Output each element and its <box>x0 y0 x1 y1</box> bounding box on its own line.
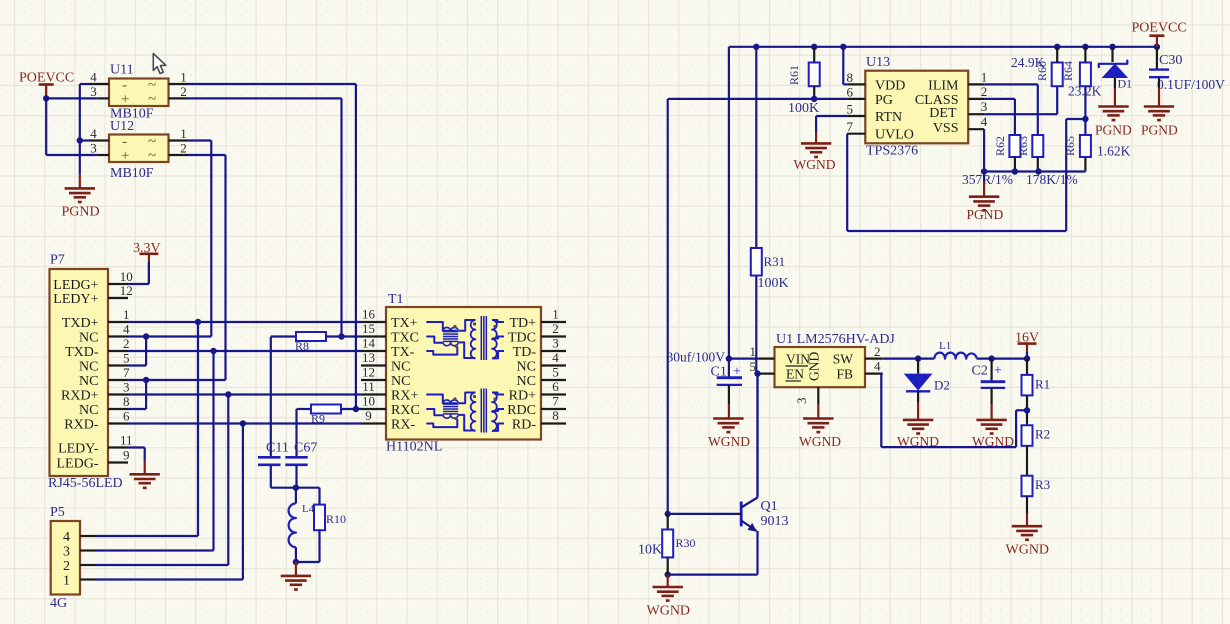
svg-text:5: 5 <box>123 351 130 366</box>
svg-text:6: 6 <box>552 379 559 394</box>
svg-text:EN: EN <box>786 367 804 382</box>
svg-text:RXD+: RXD+ <box>61 389 99 404</box>
svg-text:R61: R61 <box>787 65 801 85</box>
svg-text:2: 2 <box>180 141 187 156</box>
svg-text:1: 1 <box>180 126 187 141</box>
svg-text:DET: DET <box>929 106 957 121</box>
svg-text:2: 2 <box>63 559 70 574</box>
svg-text:C67: C67 <box>294 441 317 456</box>
svg-text:R65: R65 <box>1063 136 1077 156</box>
svg-text:RDC: RDC <box>507 403 536 418</box>
svg-text:16: 16 <box>362 307 376 322</box>
svg-text:6: 6 <box>123 409 130 424</box>
svg-text:9: 9 <box>365 408 372 423</box>
svg-text:3: 3 <box>90 84 97 99</box>
svg-text:3: 3 <box>794 398 809 405</box>
svg-text:5: 5 <box>552 365 559 380</box>
svg-text:P5: P5 <box>50 505 65 520</box>
svg-text:+: + <box>994 364 1002 379</box>
svg-text:WGND: WGND <box>794 157 836 172</box>
svg-text:RD+: RD+ <box>509 389 536 404</box>
svg-text:C11: C11 <box>266 441 289 456</box>
svg-text:2: 2 <box>552 321 559 336</box>
svg-text:VSS: VSS <box>933 121 959 136</box>
svg-text:1: 1 <box>123 307 130 322</box>
svg-text:4: 4 <box>981 114 988 129</box>
svg-text:R31: R31 <box>764 254 786 269</box>
svg-text:UVLO: UVLO <box>875 128 914 143</box>
svg-text:R1: R1 <box>1035 377 1050 392</box>
svg-text:NC: NC <box>391 374 410 389</box>
svg-text:WGND: WGND <box>647 604 691 619</box>
svg-text:TD-: TD- <box>513 345 537 360</box>
svg-text:RTN: RTN <box>875 110 902 125</box>
svg-text:POEVCC: POEVCC <box>1132 21 1187 36</box>
svg-text:2: 2 <box>123 336 130 351</box>
svg-text:5: 5 <box>847 102 854 117</box>
svg-text:NC: NC <box>517 360 536 375</box>
svg-text:P7: P7 <box>50 253 65 268</box>
svg-text:T1: T1 <box>388 292 404 307</box>
svg-text:4: 4 <box>90 70 97 85</box>
svg-text:GND: GND <box>807 352 822 381</box>
svg-text:FB: FB <box>836 367 853 382</box>
svg-text:PGND: PGND <box>967 207 1004 222</box>
svg-text:U13: U13 <box>866 55 890 70</box>
svg-text:R8: R8 <box>295 339 309 353</box>
svg-text:NC: NC <box>79 360 98 375</box>
svg-text:TXD+: TXD+ <box>62 316 99 331</box>
svg-text:+: + <box>121 92 129 108</box>
svg-text:1: 1 <box>63 574 70 589</box>
svg-text:RX+: RX+ <box>391 389 418 404</box>
svg-text:3: 3 <box>981 99 988 114</box>
svg-text:LEDG+: LEDG+ <box>53 278 98 293</box>
svg-text:L4: L4 <box>302 503 315 515</box>
svg-text:LEDY+: LEDY+ <box>53 292 98 307</box>
svg-text:ILIM: ILIM <box>928 78 959 93</box>
svg-text:4: 4 <box>552 350 559 365</box>
svg-text:PGND: PGND <box>1141 123 1178 138</box>
svg-text:100K: 100K <box>788 101 819 116</box>
svg-text:6: 6 <box>847 84 854 99</box>
svg-text:RXD-: RXD- <box>64 418 99 433</box>
svg-text:RD-: RD- <box>512 418 536 433</box>
svg-text:VDD: VDD <box>875 78 905 93</box>
svg-text:TDC: TDC <box>508 331 536 346</box>
svg-text:R10: R10 <box>326 512 346 526</box>
svg-text:R64: R64 <box>1061 61 1075 81</box>
svg-text:MB10F: MB10F <box>110 166 154 181</box>
svg-text:R63: R63 <box>1016 136 1030 156</box>
svg-text:8: 8 <box>847 70 854 85</box>
svg-text:4G: 4G <box>50 596 67 611</box>
svg-text:3: 3 <box>90 141 97 156</box>
svg-text:11: 11 <box>120 433 133 448</box>
svg-text:TX+: TX+ <box>391 316 418 331</box>
svg-text:WGND: WGND <box>799 434 841 449</box>
svg-text:3: 3 <box>552 336 559 351</box>
svg-text:PGND: PGND <box>1095 123 1132 138</box>
svg-text:R62: R62 <box>993 136 1007 156</box>
svg-text:NC: NC <box>517 374 536 389</box>
svg-text:14: 14 <box>362 336 376 351</box>
svg-text:10: 10 <box>362 394 375 409</box>
svg-text:178K/1%: 178K/1% <box>1026 172 1078 187</box>
svg-text:C30: C30 <box>1159 53 1182 68</box>
svg-text:12: 12 <box>362 365 375 380</box>
svg-text:1: 1 <box>981 69 988 84</box>
svg-text:2: 2 <box>981 84 988 99</box>
svg-text:2: 2 <box>874 344 881 359</box>
svg-text:R2: R2 <box>1035 427 1050 442</box>
svg-text:R30: R30 <box>676 536 696 550</box>
svg-text:2: 2 <box>180 84 187 99</box>
svg-text:D2: D2 <box>934 378 950 393</box>
svg-text:4: 4 <box>90 126 97 141</box>
svg-text:LEDG-: LEDG- <box>57 457 99 472</box>
svg-text:NC: NC <box>79 374 98 389</box>
svg-text:RXC: RXC <box>391 403 420 418</box>
svg-text:RX-: RX- <box>391 418 415 433</box>
svg-text:1: 1 <box>750 344 757 359</box>
svg-text:Q1: Q1 <box>761 499 778 514</box>
svg-text:~: ~ <box>148 92 156 108</box>
svg-text:1.62K: 1.62K <box>1097 144 1131 159</box>
svg-text:1: 1 <box>552 307 559 322</box>
svg-text:U11: U11 <box>110 63 134 78</box>
svg-text:LEDY-: LEDY- <box>58 442 99 457</box>
svg-text:10K: 10K <box>638 543 662 558</box>
svg-text:8: 8 <box>123 394 130 409</box>
svg-text:357R/1%: 357R/1% <box>962 172 1013 187</box>
svg-text:8: 8 <box>552 408 559 423</box>
svg-text:100K: 100K <box>758 276 789 291</box>
svg-text:15: 15 <box>362 321 375 336</box>
svg-text:24.9K: 24.9K <box>1011 55 1045 70</box>
svg-text:3: 3 <box>123 380 130 395</box>
svg-text:1: 1 <box>180 70 187 85</box>
svg-text:7: 7 <box>552 394 559 409</box>
svg-text:4: 4 <box>123 322 130 337</box>
svg-text:C2: C2 <box>972 364 988 379</box>
svg-text:NC: NC <box>391 360 410 375</box>
svg-text:TXC: TXC <box>391 331 419 346</box>
svg-text:12: 12 <box>120 283 133 298</box>
svg-text:0.1UF/100V: 0.1UF/100V <box>1157 77 1225 92</box>
svg-text:TD+: TD+ <box>509 316 536 331</box>
svg-text:+: + <box>121 148 129 164</box>
svg-text:30uf/100V: 30uf/100V <box>667 350 726 365</box>
svg-text:PGND: PGND <box>62 205 100 220</box>
svg-text:WGND: WGND <box>708 434 750 449</box>
svg-text:TXD-: TXD- <box>65 345 99 360</box>
svg-text:9: 9 <box>123 448 130 463</box>
svg-text:9013: 9013 <box>761 514 789 529</box>
svg-text:D1: D1 <box>1118 77 1133 91</box>
svg-text:7: 7 <box>123 365 130 380</box>
svg-text:10: 10 <box>120 269 133 284</box>
svg-text:NC: NC <box>79 331 98 346</box>
svg-text:7: 7 <box>847 119 854 134</box>
svg-text:R9: R9 <box>311 412 325 426</box>
svg-text:TPS2376: TPS2376 <box>866 144 918 159</box>
svg-text:TX-: TX- <box>391 345 415 360</box>
svg-text:H1102NL: H1102NL <box>386 440 442 455</box>
svg-text:SW: SW <box>833 352 854 367</box>
svg-text:NC: NC <box>79 403 98 418</box>
svg-text:11: 11 <box>362 379 375 394</box>
svg-text:PG: PG <box>875 93 893 108</box>
svg-text:13: 13 <box>362 350 375 365</box>
svg-text:4: 4 <box>874 359 881 374</box>
svg-text:RJ45-56LED: RJ45-56LED <box>48 476 123 491</box>
svg-text:WGND: WGND <box>1006 543 1050 558</box>
svg-text:3: 3 <box>63 545 70 560</box>
svg-text:R3: R3 <box>1035 477 1050 492</box>
svg-text:~: ~ <box>148 148 156 164</box>
svg-text:4: 4 <box>63 530 70 545</box>
svg-text:L1: L1 <box>939 340 951 352</box>
svg-text:U12: U12 <box>110 119 134 134</box>
